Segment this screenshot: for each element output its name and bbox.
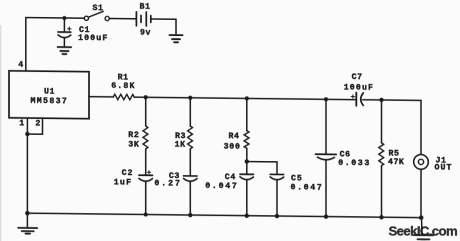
wire bus to R5 — [381, 100, 383, 143]
wire R4 to node — [246, 148, 248, 161]
svg-text:B1: B1 — [140, 3, 151, 12]
switch S1 — [84, 11, 109, 20]
resistor R3 — [188, 126, 193, 149]
label J1 OUT — [435, 156, 453, 173]
node R4 tap — [245, 96, 249, 100]
wire node to C5 branch — [247, 161, 277, 174]
svg-text:1: 1 — [19, 119, 25, 128]
wire C3 to bottom bus — [189, 181, 191, 215]
label C2 1uF — [114, 169, 134, 188]
wire bus to R2 — [145, 97, 147, 126]
svg-text:S1: S1 — [93, 4, 104, 13]
svg-text:6.8K: 6.8K — [111, 82, 135, 91]
label R1 — [111, 73, 135, 91]
svg-text:R2: R2 — [128, 131, 139, 140]
svg-text:U1: U1 — [44, 88, 55, 97]
wire R2 to C2 — [145, 149, 147, 175]
wire J1 bottom lead — [420, 169, 422, 218]
wire R3 to C3 — [189, 149, 191, 176]
svg-text:3K: 3K — [128, 140, 139, 149]
wire J1 ground lead — [421, 218, 424, 235]
resistor R5 — [379, 143, 384, 166]
node R3 tap — [188, 96, 192, 100]
label C4 value — [205, 173, 238, 191]
label C7 100uF — [344, 73, 374, 93]
capacitor C5 — [270, 174, 284, 179]
svg-text:R4: R4 — [229, 132, 240, 141]
label C6 value — [338, 150, 371, 168]
label R5 47K — [388, 150, 404, 168]
wire C4 to bottom bus — [246, 179, 248, 215]
label R3 1K — [175, 132, 186, 150]
svg-text:C7: C7 — [352, 73, 363, 82]
capacitor C1 — [58, 27, 71, 38]
svg-text:C5: C5 — [291, 174, 303, 183]
svg-text:MM5837: MM5837 — [31, 97, 69, 106]
wire top supply line from pin4 corner to S1 — [26, 17, 85, 20]
label C1 value — [78, 26, 108, 43]
capacitor C4 — [240, 174, 254, 179]
svg-text:1uF: 1uF — [114, 178, 133, 187]
svg-text:9v: 9v — [140, 29, 151, 38]
battery B1 — [136, 12, 150, 26]
ground under C1 — [58, 47, 72, 54]
wire pin 1 down — [26, 118, 28, 213]
resistor R4 — [244, 131, 249, 149]
svg-text:1K: 1K — [175, 140, 186, 149]
svg-text:100uF: 100uF — [344, 83, 374, 92]
wire bus to R3 — [189, 98, 191, 126]
scan edge artifact left border — [0, 25, 2, 241]
wire bus to C6 — [325, 99, 327, 154]
svg-text:OUT: OUT — [435, 164, 453, 173]
capacitor C6 — [316, 154, 337, 160]
node R4-C4-C5 junction — [245, 159, 249, 163]
node R2 tap — [144, 95, 148, 99]
node pins 1-2 junction — [25, 132, 29, 136]
node C1 tap junction — [62, 16, 66, 20]
resistor R2 — [143, 126, 148, 149]
wire S1 to B1 — [109, 18, 136, 20]
label R4 300 — [224, 132, 241, 152]
connector J1 output jack — [414, 154, 429, 169]
capacitor C3 — [184, 176, 198, 181]
node bottom-left junction — [25, 211, 30, 216]
node C6 bottom junction — [324, 214, 328, 218]
wire R5 to bottom bus — [381, 166, 383, 218]
wire bus to R4 — [246, 98, 248, 130]
node C4 bottom junction — [245, 213, 249, 217]
capacitor C7 series coupling — [351, 92, 363, 105]
node C5 bottom junction — [275, 214, 279, 218]
wire C6 to bottom bus — [325, 160, 327, 217]
node R5 tap — [379, 98, 383, 102]
svg-text:100uF: 100uF — [78, 34, 108, 43]
svg-text:4: 4 — [18, 61, 24, 70]
svg-text:2: 2 — [35, 120, 41, 129]
ground main at bottom-left — [18, 228, 37, 234]
resistor R1 — [113, 94, 134, 100]
wire to main ground — [26, 213, 28, 228]
wire pin 2 jog — [27, 118, 42, 134]
wire top bus R1 to C7 — [134, 97, 355, 100]
svg-text:0.033: 0.033 — [338, 159, 371, 168]
node C2 bottom junction — [144, 213, 148, 217]
svg-text:0.047: 0.047 — [291, 183, 324, 192]
svg-text:C4: C4 — [225, 173, 236, 182]
wire C2 to bottom bus — [145, 181, 147, 214]
label C5 value — [291, 174, 324, 192]
wire C1 to ground — [63, 38, 65, 47]
svg-text:47K: 47K — [388, 158, 404, 167]
capacitor C2 — [139, 171, 153, 182]
wire node to C4 — [246, 161, 248, 174]
svg-text:SeekIC.com: SeekIC.com — [389, 223, 458, 238]
svg-text:300: 300 — [224, 143, 241, 152]
svg-text:0.27: 0.27 — [154, 179, 182, 188]
node C6 tap — [324, 97, 328, 101]
wire bottom ground bus — [27, 213, 421, 217]
wire B1 to ground corner — [151, 19, 176, 35]
wire top bus C7 to J1 corner — [363, 99, 421, 102]
label C3 value — [154, 172, 182, 189]
svg-text:0.047: 0.047 — [205, 182, 238, 191]
wire U1 output to R1 — [89, 96, 113, 98]
node J1 bottom corner junction — [419, 215, 424, 220]
op-amp U1 MM5837 noise generator IC — [9, 71, 89, 119]
wire J1 top lead — [420, 100, 422, 154]
label R2 3K — [128, 131, 139, 149]
wire C5 to bottom bus — [276, 180, 278, 216]
wire pin 4 vertical — [25, 18, 27, 71]
wire C1 branch — [63, 18, 65, 32]
node R5 bottom junction — [379, 215, 383, 219]
svg-text:C2: C2 — [122, 169, 134, 178]
ground right of B1 — [169, 35, 182, 42]
ground under J1 — [414, 235, 434, 241]
node C3 bottom junction — [188, 213, 192, 217]
